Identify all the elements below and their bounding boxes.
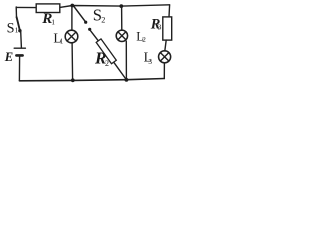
label R1 <box>41 10 55 27</box>
resistor R3 <box>163 17 172 40</box>
svg-text:2: 2 <box>101 15 105 24</box>
wire left: top corner to switch S1 <box>15 7 17 17</box>
svg-text:S: S <box>7 21 15 37</box>
wire: battery to bottom-left corner <box>18 57 20 81</box>
wire: node B to lamp L2 <box>121 7 123 31</box>
wire: lamp L3 to bottom-right corner <box>163 63 165 79</box>
lamp L3 <box>159 51 171 63</box>
wire top-left segment <box>16 6 36 8</box>
battery E <box>14 48 25 55</box>
lamp L1 <box>65 30 78 43</box>
svg-text:2: 2 <box>142 36 146 44</box>
svg-text:3: 3 <box>148 58 152 66</box>
label L3 <box>144 50 153 66</box>
wire top-right segment <box>60 5 170 8</box>
svg-text:1: 1 <box>51 17 55 26</box>
svg-text:1: 1 <box>15 26 19 35</box>
label L2 <box>136 30 146 45</box>
wire bottom <box>19 79 164 81</box>
node B (top junction for L2) <box>119 4 123 8</box>
wire: lamp L1 to bottom wire <box>71 43 74 80</box>
svg-text:1: 1 <box>60 38 64 46</box>
resistor R2 (diagonal) <box>90 30 126 79</box>
svg-text:E: E <box>4 50 13 64</box>
label R2 <box>94 49 109 69</box>
svg-text:3: 3 <box>158 23 162 32</box>
resistor R1 <box>36 4 60 13</box>
wire: top-right corner down to R3 <box>168 5 171 17</box>
switch S2 <box>74 6 92 31</box>
label L1 <box>53 30 63 45</box>
switch S1 <box>17 17 22 32</box>
label E (battery) <box>4 50 13 64</box>
wire: node A to lamp L1 <box>71 6 73 30</box>
junction dot at bottom (R2 + L2) <box>125 78 129 82</box>
label R3 <box>150 16 162 32</box>
wire: R3 to lamp L3 <box>165 40 166 51</box>
wire: lamp L2 to bottom junction <box>125 41 127 79</box>
wire: S1 to battery <box>20 32 23 48</box>
label S1 <box>7 21 19 37</box>
svg-text:2: 2 <box>105 59 109 68</box>
label S2 <box>93 6 105 25</box>
node A (top junction for L1/S2) <box>70 4 74 8</box>
junction dot at bottom of L1 branch <box>71 78 75 82</box>
lamp L2 <box>116 30 127 41</box>
